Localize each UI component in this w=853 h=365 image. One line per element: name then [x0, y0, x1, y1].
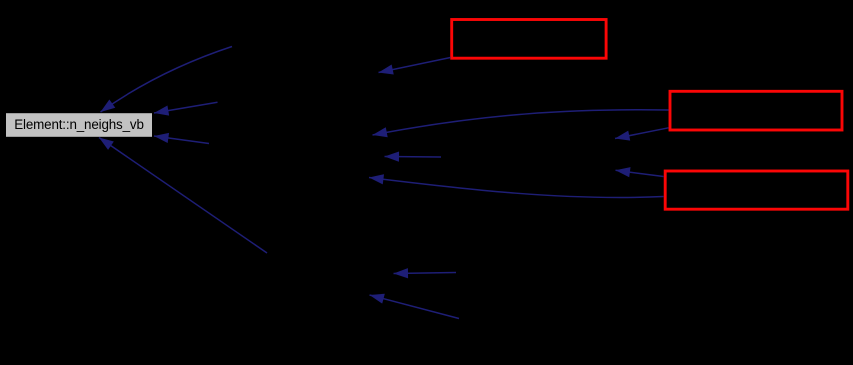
node caller-2 truncated (red box, middle right)	[670, 91, 842, 130]
edge B: hidden node -> Element::n_neighs_vb (top-right corner)	[154, 102, 218, 113]
edge G: hidden node H -> hidden mid node (short horizontal)	[385, 156, 442, 159]
edge J: hidden node -> hidden bottom node 2 (diagonal)	[370, 295, 460, 319]
svg-text:Element::n_neighs_vb: Element::n_neighs_vb	[14, 117, 144, 132]
edge D: hidden bottom node -> Element::n_neighs_vb (long diagonal into box bottom)	[99, 138, 267, 254]
edge K: red box 2 -> hidden node H	[615, 128, 669, 139]
edge I: hidden node -> hidden bottom node (short horizontal)	[394, 273, 457, 274]
edge H: red box 3 -> hidden mid node (long curve)	[369, 178, 664, 198]
edge L: red box 3 -> hidden node H	[616, 170, 664, 176]
edge A: hidden node B1 -> Element::n_neighs_vb (curve into box top)	[101, 47, 233, 113]
node Element::n_neighs_vb (current node, gray)	[6, 113, 152, 137]
edge E: red box 1 -> hidden node B1	[379, 58, 451, 73]
node caller-1 truncated (red box, top)	[452, 20, 606, 59]
node caller-3 truncated (red box, bottom right)	[665, 171, 848, 209]
edge C: hidden node -> Element::n_neighs_vb (bottom-right corner)	[154, 136, 209, 144]
edge F: red box 2 -> hidden mid node (long curve)	[373, 110, 669, 135]
